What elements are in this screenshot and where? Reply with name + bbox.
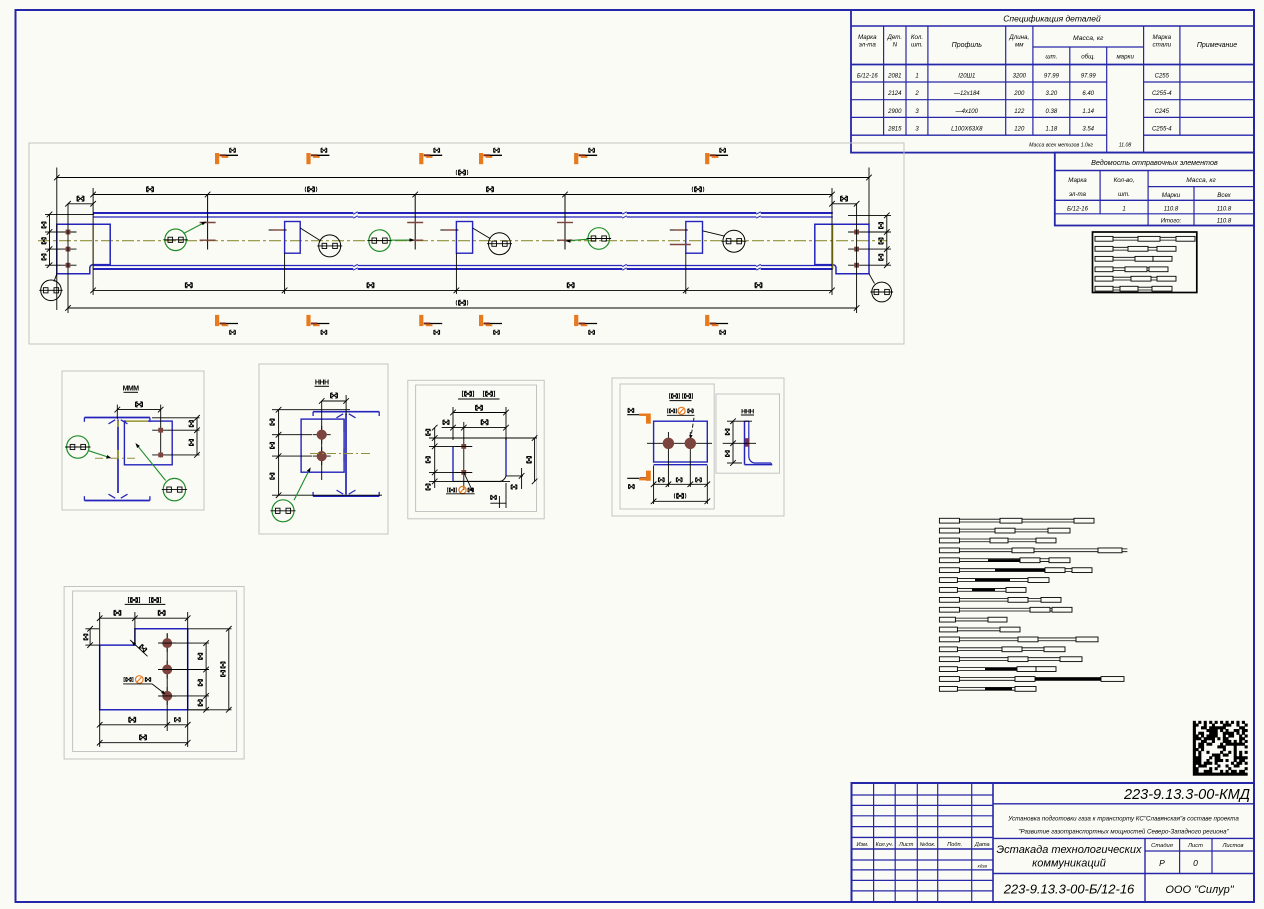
svg-text:Марка: Марка: [858, 34, 877, 41]
detail 2 left dimension chain: [270, 407, 382, 498]
data matrix code: [1193, 721, 1248, 776]
svg-text:МММ: МММ: [123, 386, 140, 393]
svg-text:2815: 2815: [887, 127, 902, 133]
flange break marks: [353, 211, 760, 271]
svg-text:2900: 2900: [887, 109, 902, 115]
detail 3 weld note: [446, 472, 475, 493]
detail 1 weld balloon right: [134, 442, 187, 501]
svg-text:ННН: ННН: [741, 408, 754, 415]
svg-text:шт.: шт.: [911, 42, 923, 49]
detail 4b angle section: [745, 421, 773, 464]
svg-text:Масса всех метизов 1.0кг: Масса всех метизов 1.0кг: [1029, 143, 1093, 149]
detail 4 title: [669, 394, 692, 401]
svg-text:Лист: Лист: [1187, 843, 1203, 849]
bottom overall dimension: [65, 300, 859, 311]
small end dimensions: [65, 196, 859, 207]
detail 2 top dimension: [319, 393, 349, 415]
svg-text:Лист: Лист: [898, 842, 914, 848]
svg-text:мм: мм: [1015, 42, 1024, 49]
svg-text:0.38: 0.38: [1046, 109, 1058, 115]
detail 5 title: [125, 597, 166, 604]
detail 5 top dimension: [97, 610, 191, 747]
top overall dimension: [54, 170, 872, 180]
beam drawing viewport: [29, 143, 904, 344]
svg-text:3.20: 3.20: [1046, 91, 1058, 97]
svg-text:С245: С245: [1155, 109, 1170, 115]
detail view 2 box: [259, 364, 388, 534]
detail 1 title: [123, 386, 140, 393]
detail 5 chamfer dimension: [130, 640, 147, 656]
svg-text:Марка: Марка: [1068, 177, 1087, 184]
svg-text:—12х184: —12х184: [953, 91, 980, 97]
left end bolts: [60, 230, 77, 268]
detail 2 weld balloon: [271, 466, 313, 521]
detail 1 connection plate: [124, 421, 172, 465]
svg-text:Подп.: Подп.: [947, 842, 962, 848]
detail view 5 boxes: [64, 587, 244, 760]
svg-text:Б/12-16: Б/12-16: [857, 74, 879, 80]
extension lines: [57, 168, 869, 314]
svg-text:1.14: 1.14: [1082, 109, 1094, 115]
svg-text:Масса, кг: Масса, кг: [1186, 177, 1216, 184]
detail view 3 boxes: [408, 380, 544, 519]
svg-text:3: 3: [915, 109, 919, 115]
detail 3 corner dimensions: [490, 468, 524, 508]
right end bolts: [848, 230, 865, 268]
corner balloon right: [869, 274, 893, 302]
svg-text:Дата: Дата: [974, 842, 990, 848]
shipping elements table (Ведомость отправочных элементов): [1055, 153, 1254, 226]
detail 1 bolts: [152, 405, 169, 458]
detail 4 cut mark top left: [627, 408, 651, 424]
svg-text:2081: 2081: [887, 74, 901, 80]
detail 3 bolts: [455, 422, 472, 490]
svg-text:Марка: Марка: [1153, 34, 1172, 41]
svg-text:Профиль: Профиль: [952, 42, 983, 49]
svg-text:С255-4: С255-4: [1152, 127, 1172, 133]
detail 2 I-beam section: [313, 412, 379, 497]
svg-text:Установка подготовки газа к тр: Установка подготовки газа к транспорту К…: [1007, 816, 1239, 823]
detail 2 centerline: [310, 453, 370, 455]
detail 5 right dimension chain 2: [188, 626, 232, 713]
svg-text:110.8: 110.8: [1164, 206, 1179, 212]
svg-text:I20Ш1: I20Ш1: [958, 74, 975, 80]
left end plate: [57, 224, 110, 273]
detail 4 bolts: [647, 432, 712, 487]
svg-text:3: 3: [915, 127, 919, 133]
svg-text:Кол.: Кол.: [911, 34, 923, 41]
svg-text:1.18: 1.18: [1046, 127, 1058, 133]
detail 1 centerline: [95, 457, 135, 459]
specification table (Спецификация деталей): [851, 10, 1254, 153]
svg-text:3200: 3200: [1013, 74, 1027, 80]
svg-text:0: 0: [1193, 858, 1198, 868]
detail 2 title: [315, 380, 330, 387]
detail 3 title: [458, 391, 500, 399]
detail 3 top dimensions: [442, 405, 509, 440]
svg-text:С255-4: С255-4: [1152, 91, 1172, 97]
svg-text:Ведомость отправочных элементо: Ведомость отправочных элементов: [1091, 158, 1218, 167]
svg-text:1: 1: [1122, 206, 1125, 212]
detail 5 right dimension chain 1: [158, 640, 209, 712]
svg-text:Итого:: Итого:: [1161, 219, 1182, 225]
detail view 1 box: [62, 371, 204, 510]
svg-text:коммуникаций: коммуникаций: [1032, 858, 1106, 870]
svg-text:N: N: [893, 42, 898, 49]
svg-text:11.08: 11.08: [1119, 143, 1132, 149]
centerline: [38, 240, 887, 242]
detail 4 bottom dimensions: [651, 466, 710, 505]
detail 1 weld balloon left: [65, 436, 112, 460]
svg-text:1: 1: [915, 74, 918, 80]
title block texts: [857, 787, 1250, 897]
svg-text:ООО "Силур": ООО "Силур": [1165, 884, 1234, 896]
svg-text:Р: Р: [1159, 858, 1165, 868]
detail balloons (black): [300, 228, 746, 257]
svg-text:Изм.: Изм.: [857, 842, 869, 848]
svg-text:120: 120: [1014, 127, 1025, 133]
upper chain dimension: [90, 187, 835, 198]
detail 4 weld note: [667, 407, 695, 439]
svg-text:шт.: шт.: [1118, 191, 1130, 198]
svg-text:Спецификация деталей: Спецификация деталей: [1003, 14, 1101, 24]
svg-text:ННН: ННН: [315, 380, 329, 387]
detail 5 plate: [100, 629, 188, 710]
svg-text:эл-та: эл-та: [1069, 191, 1087, 198]
detail 3 plate: [453, 438, 506, 481]
svg-text:Листов: Листов: [1221, 843, 1243, 849]
svg-text:Длина,: Длина,: [1008, 34, 1029, 41]
right bolt dimension chain: [848, 213, 891, 268]
detail 5 bolts: [158, 633, 176, 731]
section cut marks top: [215, 148, 728, 164]
svg-text:кдзв: кдзв: [978, 864, 988, 869]
detail 2 connection plate: [301, 419, 344, 472]
svg-text:223-9.13.3-00-КМД: 223-9.13.3-00-КМД: [1123, 787, 1250, 803]
svg-text:2: 2: [914, 91, 919, 97]
svg-text:Стадия: Стадия: [1151, 843, 1173, 849]
svg-text:Масса, кг: Масса, кг: [1073, 35, 1104, 42]
connection marks (vertical studs): [200, 195, 573, 250]
technical notes greeked text: [939, 518, 1127, 691]
stiffener plates on beam: [269, 222, 703, 254]
svg-text:С255: С255: [1155, 74, 1170, 80]
svg-text:97.99: 97.99: [1044, 74, 1060, 80]
detail 3 right dimension: [527, 435, 538, 484]
title block frame: [852, 783, 1255, 902]
svg-text:шт.: шт.: [1045, 54, 1057, 61]
detail 4b dimension chain: [723, 418, 756, 465]
svg-text:L100Х63Х8: L100Х63Х8: [951, 127, 983, 133]
detail 2 bolts: [313, 401, 331, 480]
detail 4b title: [741, 408, 755, 415]
svg-text:97.99: 97.99: [1081, 74, 1097, 80]
svg-text:2124: 2124: [887, 91, 902, 97]
detail 1 top dimension: [115, 402, 164, 419]
svg-text:общ.: общ.: [1081, 54, 1095, 61]
detail 4 plate: [654, 421, 708, 465]
beam top flange: [93, 213, 833, 217]
svg-text:№док.: №док.: [920, 842, 936, 848]
detail 5 bottom dimensions: [97, 717, 191, 745]
svg-text:110.8: 110.8: [1217, 219, 1232, 225]
svg-text:Кол.уч.: Кол.уч.: [876, 842, 894, 848]
weld balloons (green): [163, 220, 611, 251]
detail 5 left small dimension: [83, 626, 99, 648]
svg-text:223-9.13.3-00-Б/12-16: 223-9.13.3-00-Б/12-16: [1003, 882, 1135, 897]
svg-text:Б/12-16: Б/12-16: [1067, 206, 1089, 212]
svg-text:122: 122: [1014, 109, 1025, 115]
svg-text:марки: марки: [1116, 54, 1134, 61]
striped stamp block under shipping table: [1093, 232, 1197, 293]
corner balloon left: [39, 274, 63, 301]
svg-text:"Развитие газотранспортных мощ: "Развитие газотранспортных мощностей Сев…: [1018, 829, 1229, 836]
svg-text:3.54: 3.54: [1082, 127, 1094, 133]
svg-text:Кол-во,: Кол-во,: [1114, 177, 1135, 184]
left bolt dimension chain: [41, 212, 94, 268]
detail 1 right dimension chain: [152, 415, 200, 458]
beam bottom flange: [93, 266, 833, 270]
detail view 4 boxes: [612, 378, 784, 516]
svg-text:—4х100: —4х100: [955, 109, 979, 115]
svg-text:Марки: Марки: [1162, 192, 1181, 199]
detail 4 cut mark bottom left: [627, 471, 651, 489]
detail 5 weld note: [123, 676, 166, 696]
svg-text:стали: стали: [1153, 42, 1172, 49]
svg-text:Примечание: Примечание: [1197, 42, 1237, 49]
svg-text:Эстакада технологических: Эстакада технологических: [997, 844, 1142, 856]
section cut marks bottom: [215, 315, 728, 335]
svg-text:эл-та: эл-та: [859, 42, 877, 49]
svg-text:Всех: Всех: [1217, 192, 1231, 199]
right end plate: [815, 224, 869, 273]
detail 3 left dimension chain: [426, 425, 537, 490]
svg-text:6.40: 6.40: [1082, 91, 1094, 97]
svg-text:110.8: 110.8: [1217, 206, 1232, 212]
lower chain dimension: [90, 283, 835, 294]
svg-text:Дет.: Дет.: [887, 34, 903, 41]
detail 1 I-beam section: [84, 418, 149, 501]
svg-text:200: 200: [1013, 91, 1025, 97]
